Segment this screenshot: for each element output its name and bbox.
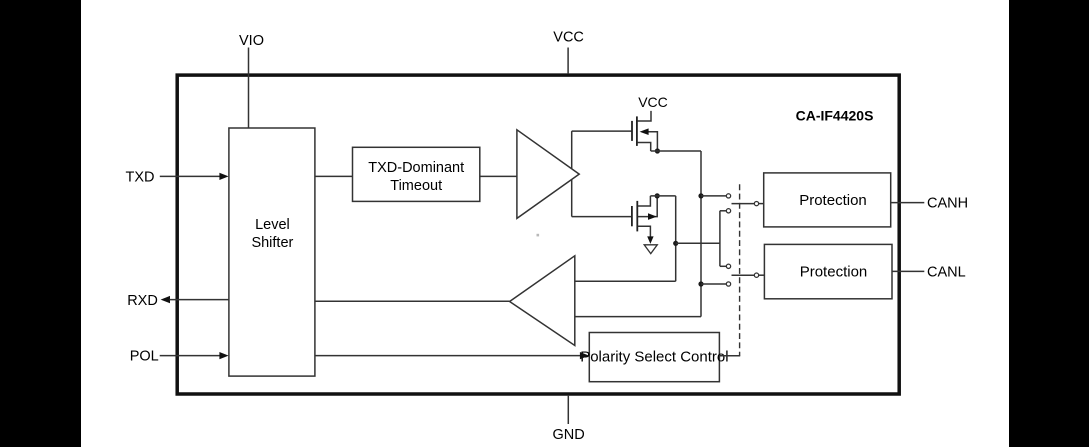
block Level Shifter — [229, 128, 315, 376]
control line (dashed) from Polarity Select Control — [739, 184, 741, 355]
svg-text:VCC: VCC — [553, 30, 584, 46]
switch S1 pole contact (top) — [726, 194, 730, 198]
arrowhead Q2 source to ground — [647, 236, 653, 244]
svg-text:Shifter: Shifter — [251, 235, 293, 251]
arrowhead TXD into Level Shifter — [219, 173, 228, 180]
switch S2 pole contact (top) — [726, 264, 730, 268]
ground — [644, 245, 657, 254]
svg-text:POL: POL — [130, 349, 159, 365]
wire receiver lower input — [575, 316, 701, 318]
arrowhead POL into Level Shifter — [219, 352, 228, 359]
wire Q1 drain to bus — [651, 150, 701, 152]
junction dot bus at CANH pole — [698, 193, 703, 198]
IC boundary CA-IF4420S — [177, 75, 899, 394]
svg-text:RXD: RXD — [127, 293, 158, 309]
driver buffer (triangle) — [517, 130, 579, 219]
wire POL — [160, 355, 221, 357]
svg-text:TXD-Dominant: TXD-Dominant — [368, 160, 464, 176]
wire receiver output to Level Shifter — [315, 300, 510, 302]
stray speck artifact — [537, 234, 540, 237]
svg-text:TXD: TXD — [126, 169, 155, 185]
wire stub to switch pole 1 — [701, 195, 726, 197]
wire node B to switch column — [676, 211, 720, 266]
wire receiver upper input — [575, 280, 676, 282]
transistor Q1 (high-side MOSFET) — [632, 111, 657, 151]
switch S1 pole contact (bottom) — [726, 209, 730, 213]
svg-text:CA-IF4420S: CA-IF4420S — [796, 108, 874, 124]
svg-text:CANH: CANH — [927, 196, 968, 212]
junction dot bus at CANL pole — [698, 281, 703, 286]
wire vertical bus (Q1 drain / CANH pole / CANL pole / receiver input) — [700, 151, 702, 317]
wire GND — [567, 395, 569, 424]
block Protection (CANL) — [764, 244, 892, 298]
wire Level Shifter to TXD-Dominant Timeout — [315, 175, 353, 177]
switch S2 pole contact (bottom) — [726, 282, 730, 286]
receiver (triangle, points left) — [510, 256, 575, 346]
transistor Q2 (low-side MOSFET) — [632, 196, 657, 242]
wire Polarity Select Control output to dashed control line — [719, 355, 740, 357]
wire Q2 drain bus — [650, 196, 675, 281]
wire CANL — [892, 270, 924, 272]
switch S1 throw wire to CANH protection — [732, 203, 755, 205]
wire Timeout to driver — [480, 175, 517, 177]
svg-text:Polarity Select Control: Polarity Select Control — [580, 349, 728, 366]
svg-text:VCC: VCC — [638, 94, 668, 110]
junction dot Q2 drain — [655, 193, 660, 198]
wire stub to switch pole 4 — [701, 283, 726, 285]
wire RXD — [170, 299, 229, 301]
wire CANH — [891, 202, 925, 204]
svg-text:Timeout: Timeout — [390, 178, 442, 194]
svg-text:CANL: CANL — [927, 264, 966, 280]
wire POL to Polarity Select Control — [315, 355, 581, 357]
wire stub to switch pole 2 — [720, 210, 726, 212]
switch S2 throw wire to CANL protection — [732, 274, 755, 276]
block TXD-Dominant Timeout — [353, 147, 480, 201]
arrowhead RXD (pointing left) — [161, 296, 170, 303]
svg-text:Protection: Protection — [799, 192, 867, 209]
arrowhead into Polarity Select Control — [580, 352, 589, 359]
wire VCC — [567, 48, 569, 75]
svg-text:GND: GND — [552, 427, 584, 443]
wire driver output split to gates — [572, 131, 632, 217]
svg-text:VIO: VIO — [239, 33, 264, 49]
block Polarity Select Control — [589, 333, 719, 382]
wire VIO — [248, 48, 250, 129]
wire TXD — [160, 175, 221, 177]
wire stub to switch pole 3 — [720, 265, 726, 267]
junction dot Q1 drain — [655, 148, 660, 153]
junction dot node B — [673, 241, 678, 246]
block Protection (CANH) — [764, 173, 891, 227]
svg-text:Protection: Protection — [800, 264, 868, 281]
svg-text:Level: Level — [255, 217, 290, 233]
